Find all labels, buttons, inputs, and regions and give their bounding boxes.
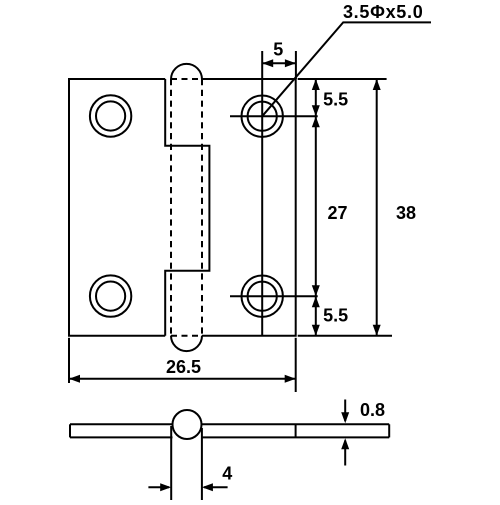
hole bottom-left outer	[90, 275, 131, 316]
dim 0.8 upper arrow	[344, 400, 346, 422]
svg-text:38: 38	[396, 203, 416, 223]
barrel right hidden edge (dashed)	[201, 79, 203, 336]
barrel top cap arc	[171, 64, 202, 80]
centerline top-right hole	[230, 115, 318, 117]
svg-text:3.5Φx5.0: 3.5Φx5.0	[343, 2, 423, 22]
svg-text:5: 5	[273, 40, 283, 60]
dim 4 left arrow	[148, 486, 169, 488]
svg-text:4: 4	[222, 463, 232, 483]
extension line right of dim 26.5	[295, 338, 297, 392]
extension line right of dim 5	[295, 51, 297, 79]
svg-text:26.5: 26.5	[166, 357, 201, 377]
hole top-left inner	[96, 101, 125, 130]
dimension line 5	[262, 62, 296, 64]
dimension line 26.5	[69, 378, 296, 380]
dim 4 left extension line	[170, 426, 172, 500]
left leaf outline	[69, 79, 209, 336]
svg-text:0.8: 0.8	[360, 400, 385, 420]
side view bar top edge	[70, 423, 389, 425]
svg-text:5.5: 5.5	[323, 89, 348, 109]
hole bottom-right outer	[242, 276, 283, 317]
barrel left hidden edge (dashed)	[170, 79, 172, 336]
dim 4 right extension line	[201, 428, 203, 500]
dimension 5.5 bottom	[315, 296, 317, 336]
side view bar left end	[69, 424, 71, 437]
side view bar right end	[388, 424, 390, 437]
hole top-right outer	[242, 96, 283, 137]
side view barrel circle	[173, 410, 202, 439]
dimension 5.5 top	[315, 79, 317, 116]
dimension 27	[315, 116, 317, 296]
hidden top edge behind barrel (dashed)	[171, 78, 202, 80]
hole bottom-left inner	[96, 282, 125, 311]
top edge extension line	[298, 78, 387, 80]
right leaf outline	[202, 79, 296, 336]
vertical extension line through right holes	[261, 51, 263, 336]
svg-text:5.5: 5.5	[323, 306, 348, 326]
hole top-right inner	[248, 102, 277, 131]
hole top-left outer	[90, 95, 131, 136]
centerline bottom-right hole	[230, 295, 318, 297]
hidden bottom edge behind barrel (dashed)	[171, 335, 202, 337]
dim 0.8 lower arrow	[344, 441, 346, 466]
hole bottom-right inner	[248, 282, 277, 311]
extension line left of dim 26.5	[68, 338, 70, 383]
barrel bottom cap arc	[171, 336, 202, 352]
dimension 38	[376, 79, 378, 336]
side view bar bottom edge	[70, 436, 389, 438]
side view leaf joint tick	[295, 424, 297, 437]
leader line to 3.5 hole note	[262, 22, 431, 116]
svg-text:27: 27	[327, 203, 347, 223]
dim 4 right arrow	[204, 486, 228, 488]
bottom edge extension line	[298, 335, 392, 337]
